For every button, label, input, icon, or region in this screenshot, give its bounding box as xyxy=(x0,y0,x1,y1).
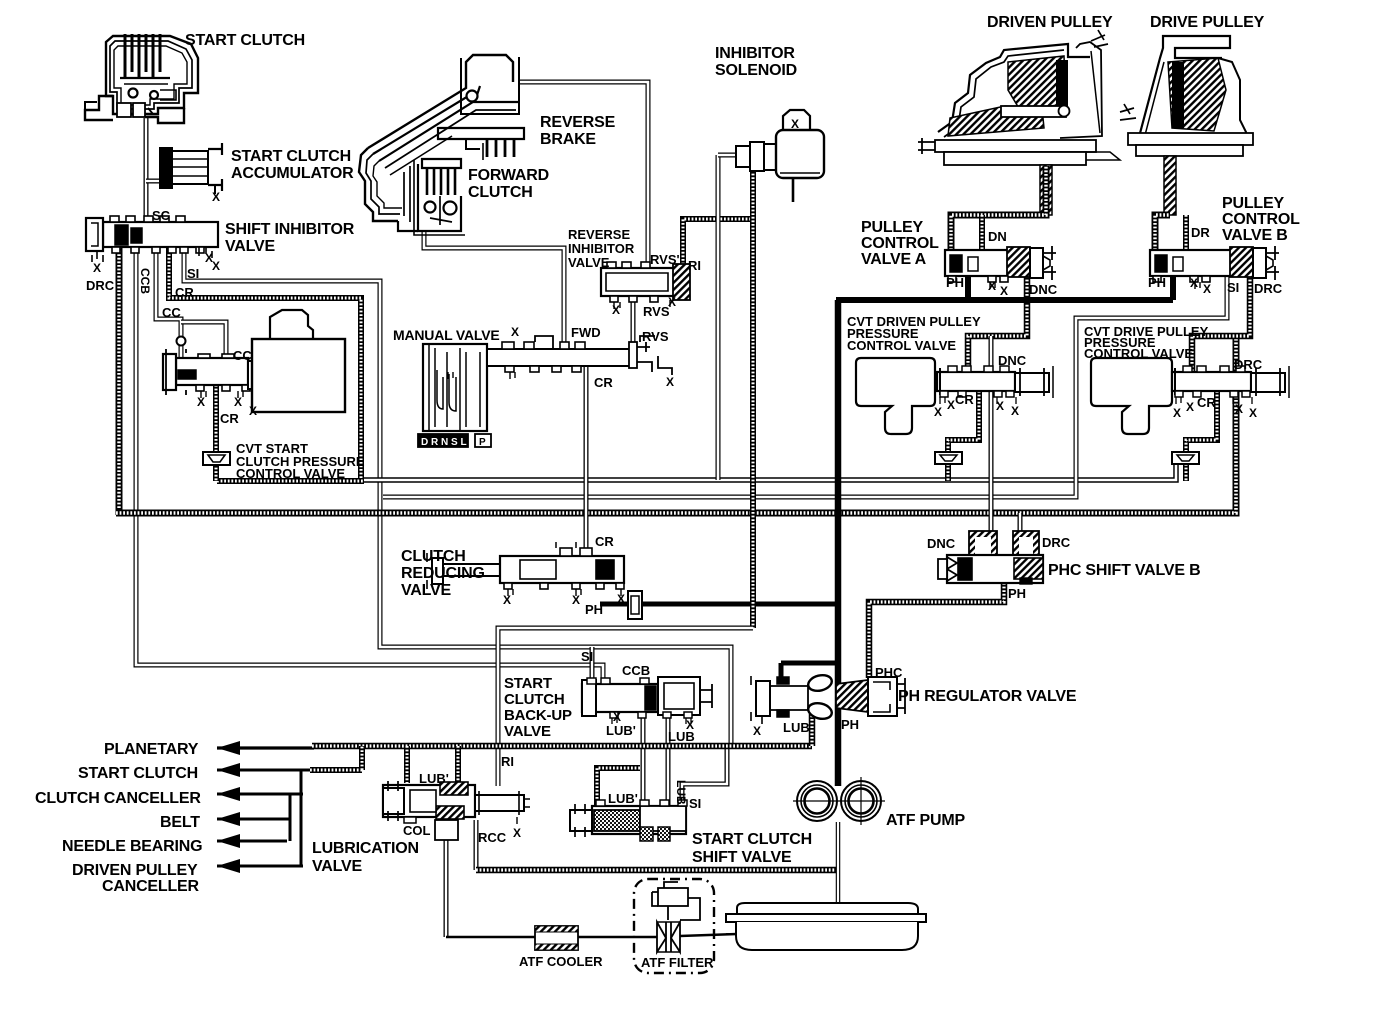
start clutch shift valve xyxy=(570,800,687,841)
svg-text:PULLEY: PULLEY xyxy=(861,219,923,236)
svg-text:FORWARD: FORWARD xyxy=(468,167,549,184)
svg-text:START CLUTCH: START CLUTCH xyxy=(78,765,198,782)
svg-text:CR: CR xyxy=(1197,395,1216,410)
svg-text:DN: DN xyxy=(988,229,1007,244)
shift inhibitor valve xyxy=(86,216,218,262)
svg-text:PH: PH xyxy=(1008,586,1026,601)
svg-text:D R N S L: D R N S L xyxy=(421,437,467,448)
svg-text:SI: SI xyxy=(1227,280,1239,295)
CVT drive pulley pressure control valve solenoid xyxy=(1091,358,1172,434)
wire RCC: lubrication valve to suction bus xyxy=(474,820,479,870)
wire CR: shift inhibitor valve right then down to CR bus xyxy=(169,247,361,481)
wire CC: shift inhibitor valve to CVT start clutch pressure control valve xyxy=(156,247,181,360)
wire: start clutch arrow line xyxy=(217,769,310,772)
svg-text:RCC: RCC xyxy=(478,830,507,845)
svg-text:CONTROL: CONTROL xyxy=(861,235,939,252)
svg-text:X: X xyxy=(197,395,205,409)
wire SC: start clutch to shift inhibitor valve xyxy=(144,118,149,221)
svg-text:SOLENOID: SOLENOID xyxy=(715,62,797,79)
svg-text:BRAKE: BRAKE xyxy=(540,131,596,148)
svg-text:PH: PH xyxy=(1148,275,1166,290)
svg-text:INHIBITOR: INHIBITOR xyxy=(715,45,795,62)
svg-text:X: X xyxy=(1190,276,1198,290)
needle bearing arrow xyxy=(217,834,240,848)
wire CR: manual valve down to clutch reducing valve xyxy=(584,366,589,556)
svg-text:X: X xyxy=(668,295,676,309)
wire: clutch canceller arrow line xyxy=(217,793,303,796)
svg-text:X: X xyxy=(93,261,101,275)
svg-text:X: X xyxy=(572,593,580,607)
belt arrow xyxy=(217,812,240,826)
svg-text:CR: CR xyxy=(220,411,239,426)
svg-text:CONTROL VALVE: CONTROL VALVE xyxy=(236,466,345,481)
svg-text:X: X xyxy=(212,259,220,273)
driven pulley canceller arrow xyxy=(217,859,240,873)
pulley control valve B xyxy=(1150,246,1279,289)
wire LUB: back-up valve down xyxy=(666,712,671,806)
wire LUB bus y746: planetary arrow line to PH regulator LUB port xyxy=(217,746,314,749)
wire RVS: reverse inhibitor valve to manual valve xyxy=(631,296,636,342)
ATF filter relief valve xyxy=(652,882,700,920)
svg-text:DRC: DRC xyxy=(86,278,115,293)
wire DRC riser to PHC shift valve B xyxy=(1018,513,1023,556)
check valve on CVT drive CR line xyxy=(1172,452,1199,464)
wire PH thick trunk: pulley control valves to ATF pump xyxy=(836,297,1173,303)
clutch reducing valve xyxy=(427,542,624,596)
wire RI run: y628 left then down to lubrication valve xyxy=(498,628,753,786)
svg-text:SI: SI xyxy=(581,649,593,664)
svg-text:VALVE: VALVE xyxy=(312,858,362,875)
svg-text:DRC: DRC xyxy=(1234,357,1263,372)
start clutch back-up valve xyxy=(582,677,712,724)
svg-text:LUB: LUB xyxy=(783,720,810,735)
wire SI riser into back-up valve xyxy=(590,647,595,684)
svg-text:PH: PH xyxy=(585,602,603,617)
svg-text:START CLUTCH: START CLUTCH xyxy=(185,32,305,49)
wire: lubrication valve top risers from LUB bus xyxy=(404,746,410,783)
manual valve shift positions indicator xyxy=(418,434,468,447)
svg-text:X: X xyxy=(617,592,625,606)
svg-text:PLANETARY: PLANETARY xyxy=(104,741,199,758)
svg-text:LUB': LUB' xyxy=(419,771,449,786)
svg-text:CLUTCH: CLUTCH xyxy=(504,691,564,708)
ATF filter funnel xyxy=(657,922,680,952)
svg-text:DNC: DNC xyxy=(927,536,956,551)
svg-text:ATF COOLER: ATF COOLER xyxy=(519,954,603,969)
svg-text:X: X xyxy=(988,279,996,293)
svg-text:X: X xyxy=(1235,402,1243,416)
svg-text:X: X xyxy=(1000,284,1008,298)
wire: shift valve left hatched elbow xyxy=(597,768,640,806)
svg-text:CR: CR xyxy=(595,534,614,549)
svg-text:CONTROL VALVE: CONTROL VALVE xyxy=(1084,346,1193,361)
svg-text:DR: DR xyxy=(1191,225,1210,240)
wire: driven pulley canceller arrow line xyxy=(217,865,303,868)
svg-text:RI: RI xyxy=(688,258,701,273)
wire LUB': back-up valve to start clutch shift valve xyxy=(641,712,646,806)
PHC shift valve B xyxy=(938,555,1043,584)
wire PH: clutch reducing valve to trunk xyxy=(600,602,838,607)
wire PH: regulator valve top port to trunk xyxy=(781,661,838,666)
drive pulley hatched feed pipe xyxy=(1164,156,1176,215)
svg-text:BACK-UP: BACK-UP xyxy=(504,707,572,724)
svg-text:X: X xyxy=(249,404,257,418)
svg-text:X: X xyxy=(212,190,220,204)
svg-text:CR: CR xyxy=(955,392,974,407)
svg-text:ATF FILTER: ATF FILTER xyxy=(641,955,714,970)
svg-text:REDUCING: REDUCING xyxy=(401,565,485,582)
wire DRC bus: hatched y513 across full width xyxy=(116,338,1236,513)
svg-text:CC: CC xyxy=(233,348,252,363)
svg-text:X: X xyxy=(613,710,621,724)
pulley control valve A xyxy=(945,246,1056,289)
svg-text:CONTROL: CONTROL xyxy=(1222,211,1300,228)
wire: needle bearing arrow line xyxy=(217,840,287,843)
svg-text:VALVE: VALVE xyxy=(225,238,275,255)
CVT drive pulley pressure control valve xyxy=(1172,366,1289,404)
svg-text:X: X xyxy=(934,405,942,419)
svg-text:SC: SC xyxy=(152,208,171,223)
svg-text:X: X xyxy=(1011,404,1019,418)
drive pulley xyxy=(1120,36,1253,156)
CVT driven pulley pressure control valve xyxy=(937,366,1053,404)
svg-text:X: X xyxy=(1203,282,1211,296)
wire riser joining start clutch / driven pulley canceller lines xyxy=(300,770,303,866)
clutch canceller arrow xyxy=(217,787,240,801)
svg-text:RVS': RVS' xyxy=(650,252,680,267)
svg-text:CCB: CCB xyxy=(138,268,152,294)
check valve on CVT start clutch CR line xyxy=(203,452,230,465)
svg-text:CR: CR xyxy=(594,375,613,390)
svg-text:LUBRICATION: LUBRICATION xyxy=(312,840,419,857)
svg-text:SHIFT VALVE: SHIFT VALVE xyxy=(692,849,792,866)
wire SI bus: horizontal y497 to CVT drive pulley box xyxy=(383,276,1227,497)
wire FWD: forward clutch to manual valve xyxy=(424,230,564,342)
svg-text:DRC: DRC xyxy=(1254,281,1283,296)
svg-text:CC: CC xyxy=(162,305,181,320)
wire: belt arrow line xyxy=(217,818,291,821)
wire CCB: shift inhibitor valve down, right to back-up valve CCB port xyxy=(136,247,603,686)
svg-text:DRIVEN PULLEY: DRIVEN PULLEY xyxy=(987,14,1113,31)
svg-text:REVERSE: REVERSE xyxy=(568,227,630,242)
pulley control valve A chamber xyxy=(951,166,1046,250)
svg-text:MANUAL VALVE: MANUAL VALVE xyxy=(393,327,500,343)
wire: inhibitor solenoid drop to y628 run xyxy=(750,170,756,628)
svg-text:DNC: DNC xyxy=(998,353,1027,368)
ATF cooler xyxy=(535,926,578,950)
svg-text:X: X xyxy=(947,398,955,412)
svg-text:X: X xyxy=(791,117,799,131)
svg-text:X: X xyxy=(612,303,620,317)
wire riser joining clutch canceller / belt / needle bearing lines xyxy=(289,794,292,841)
svg-text:DRIVE PULLEY: DRIVE PULLEY xyxy=(1150,14,1265,31)
wire CR: CVT drive pulley valve to check valve xyxy=(1186,391,1217,452)
svg-text:LUB': LUB' xyxy=(608,791,638,806)
wire DRC: shift inhibitor valve down to DRC bus xyxy=(116,247,123,515)
PHC shift valve B chambers xyxy=(969,531,997,558)
ATF pump xyxy=(793,777,885,825)
svg-text:VALVE: VALVE xyxy=(504,723,551,740)
svg-text:X: X xyxy=(511,325,519,339)
start clutch assembly xyxy=(85,34,198,123)
reverse brake / forward clutch assembly xyxy=(359,55,524,235)
driven pulley xyxy=(918,30,1120,165)
svg-text:START CLUTCH: START CLUTCH xyxy=(231,148,351,165)
wire suction bus y870: to ATF pump xyxy=(476,867,836,874)
wire CC branch: to solenoid side port xyxy=(181,322,226,360)
svg-text:DNC: DNC xyxy=(1029,282,1058,297)
inhibitor solenoid xyxy=(736,110,824,202)
svg-text:PULLEY: PULLEY xyxy=(1222,195,1284,212)
svg-text:X: X xyxy=(1249,406,1257,420)
svg-text:VALVE: VALVE xyxy=(401,582,451,599)
svg-text:BELT: BELT xyxy=(160,814,200,831)
svg-text:DRC: DRC xyxy=(1042,535,1071,550)
svg-text:RI: RI xyxy=(501,754,514,769)
CVT driven pulley pressure control valve solenoid xyxy=(856,358,935,434)
wire: accumulator elbow to SC line xyxy=(146,179,162,184)
svg-text:VALVE A: VALVE A xyxy=(861,251,927,268)
svg-text:START: START xyxy=(504,675,552,692)
svg-text:CANCELLER: CANCELLER xyxy=(102,878,200,895)
svg-text:VALVE B: VALVE B xyxy=(1222,227,1288,244)
svg-text:VALVE: VALVE xyxy=(568,255,610,270)
svg-text:ACCUMULATOR: ACCUMULATOR xyxy=(231,165,354,182)
svg-text:X: X xyxy=(753,724,761,738)
ATF filter dashed enclosure xyxy=(634,879,714,973)
reverse inhibitor valve xyxy=(601,262,690,309)
wire DRC: pulley control valve B down xyxy=(1192,276,1250,373)
svg-text:PH: PH xyxy=(841,717,859,732)
wire CR: CVT driven pulley valve to check valve xyxy=(948,391,979,452)
svg-text:SI: SI xyxy=(187,266,199,281)
svg-text:ATF PUMP: ATF PUMP xyxy=(886,812,966,829)
svg-text:LUB': LUB' xyxy=(606,723,636,738)
wire LUB: regulator valve LUB port riser xyxy=(809,714,816,746)
svg-text:CLUTCH CANCELLER: CLUTCH CANCELLER xyxy=(35,790,201,807)
svg-text:LUB: LUB xyxy=(668,729,695,744)
svg-text:P: P xyxy=(479,437,486,448)
svg-text:CLUTCH: CLUTCH xyxy=(468,184,533,201)
check valve on clutch reducing valve PH line xyxy=(628,591,642,619)
wire: pump to oil pan pickup xyxy=(836,822,841,912)
svg-text:COL: COL xyxy=(403,823,431,838)
wire COL: lubrication valve to ATF cooler line xyxy=(444,840,449,937)
svg-text:RVS: RVS xyxy=(643,304,670,319)
svg-text:PHC SHIFT VALVE B: PHC SHIFT VALVE B xyxy=(1048,562,1200,579)
planetary arrow xyxy=(217,741,240,755)
svg-text:SHIFT INHIBITOR: SHIFT INHIBITOR xyxy=(225,221,355,238)
driven pulley hatched feed pipe xyxy=(1040,165,1052,215)
svg-text:CCB: CCB xyxy=(622,663,650,678)
svg-text:CLUTCH: CLUTCH xyxy=(401,548,466,565)
lubrication valve xyxy=(383,781,530,840)
start clutch arrow xyxy=(217,763,240,777)
svg-text:PHC: PHC xyxy=(875,665,903,680)
svg-text:SI: SI xyxy=(689,796,701,811)
restrictor on CC line xyxy=(177,337,186,346)
svg-text:X: X xyxy=(1173,406,1181,420)
svg-text:LUB: LUB xyxy=(674,780,688,805)
svg-text:RVS: RVS xyxy=(642,329,669,344)
svg-text:PH REGULATOR VALVE: PH REGULATOR VALVE xyxy=(898,688,1077,705)
PH regulator valve xyxy=(751,673,905,724)
wire CR: CVT start clutch valve to check valve xyxy=(213,385,219,452)
svg-text:X: X xyxy=(996,399,1004,413)
wire DNC riser to PHC shift valve B xyxy=(989,336,994,556)
svg-text:INHIBITOR: INHIBITOR xyxy=(568,241,635,256)
wire RI: reverse inhibitor valve to solenoid drop xyxy=(683,219,753,268)
wire PHC: PHC shift valve B PH port to regulator valve xyxy=(869,583,1004,678)
svg-text:X: X xyxy=(1186,400,1194,414)
CVT start clutch pressure control valve xyxy=(163,310,345,412)
check valve on CVT driven CR line xyxy=(935,452,962,464)
svg-text:REVERSE: REVERSE xyxy=(540,114,616,131)
wire SI: start clutch shift valve riser xyxy=(682,748,727,806)
wire CR bus: horizontal y480 across middle xyxy=(364,463,1176,480)
oil pan xyxy=(726,903,926,950)
svg-text:X: X xyxy=(503,593,511,607)
wire: cooler-filter-pan line xyxy=(446,936,535,939)
svg-text:START CLUTCH: START CLUTCH xyxy=(692,831,812,848)
svg-text:X: X xyxy=(513,826,521,840)
svg-text:FWD: FWD xyxy=(571,325,601,340)
svg-text:X: X xyxy=(666,375,674,389)
svg-text:CR: CR xyxy=(175,285,194,300)
svg-text:NEEDLE BEARING: NEEDLE BEARING xyxy=(62,838,202,855)
wire CVT start clutch box bottom (CR) xyxy=(217,478,364,484)
manual valve xyxy=(423,336,672,431)
wire DNC: pulley control valve A down to CVT driven chamber xyxy=(968,276,1027,373)
svg-text:X: X xyxy=(234,395,242,409)
start clutch accumulator xyxy=(160,143,222,194)
svg-text:PH: PH xyxy=(946,275,964,290)
wire: inhibitor solenoid connector drop to CR bus xyxy=(716,155,721,480)
pulley control valve B chamber xyxy=(1155,215,1186,250)
svg-text:DRIVEN PULLEY: DRIVEN PULLEY xyxy=(72,862,198,879)
wire SI: shift inhibitor valve to back-up valve box xyxy=(184,247,731,748)
svg-text:CONTROL VALVE: CONTROL VALVE xyxy=(847,338,956,353)
wire RVS': reverse brake to reverse inhibitor valve xyxy=(520,82,648,262)
